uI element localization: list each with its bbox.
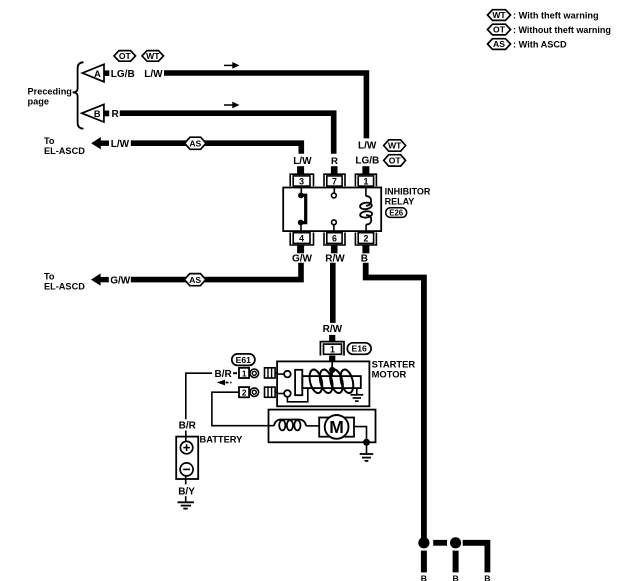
svg-text:L/W: L/W — [111, 139, 130, 150]
svg-text:WT: WT — [492, 10, 506, 20]
node square after triangle A — [104, 70, 109, 76]
pin 3 connector bracket — [290, 174, 313, 186]
svg-text:M: M — [329, 417, 344, 437]
relay contact circle top (pin 7 side) — [333, 188, 335, 194]
solenoid contact circle upper — [284, 371, 291, 378]
battery plus terminal — [180, 441, 192, 453]
svg-text:B/R: B/R — [215, 369, 233, 380]
wire stub below pin 6 — [331, 245, 338, 253]
battery ground symbol — [178, 502, 194, 508]
wire stub below pin 4 — [297, 245, 304, 253]
svg-text:E61: E61 — [236, 355, 252, 365]
relay switch blade — [301, 195, 306, 222]
svg-text:L/W: L/W — [358, 141, 377, 152]
svg-text:To: To — [44, 272, 55, 282]
battery minus terminal — [180, 463, 193, 476]
legend symbol OT — [488, 24, 511, 35]
starter motor name label — [372, 358, 416, 379]
wire below battery — [185, 476, 187, 485]
svg-text:: With theft warning: : With theft warning — [513, 11, 599, 21]
ground symbol below armature box — [360, 442, 374, 461]
svg-text:1: 1 — [330, 345, 335, 355]
svg-text:AS: AS — [493, 39, 505, 49]
wire A (L/W) horizontal then down to pin 1 — [164, 73, 366, 138]
svg-text:R: R — [331, 156, 338, 167]
junction dot B (left) — [418, 537, 429, 548]
legend symbol WT — [488, 10, 511, 21]
relay switch: wire from pin 3 to contact — [300, 188, 302, 194]
left arrow to EL-ASCD (lower) — [91, 273, 109, 285]
hexagon OT near pin 1 — [384, 155, 406, 166]
svg-text:MOTOR: MOTOR — [372, 368, 407, 379]
wire stub B middle — [453, 551, 459, 573]
svg-text:4: 4 — [299, 234, 304, 244]
To EL-ASCD label (upper) — [44, 136, 85, 156]
svg-text:page: page — [28, 97, 49, 107]
svg-text:1: 1 — [363, 176, 368, 186]
connector id oval E26 — [386, 208, 407, 218]
svg-text:B: B — [421, 573, 427, 581]
solenoid contact stub lower — [277, 393, 284, 395]
E61 pin 2 terminal double circle — [250, 388, 259, 397]
pin 2 connector bracket — [355, 233, 376, 246]
svg-text:To: To — [44, 136, 55, 146]
svg-text:: Without theft warning: : Without theft warning — [513, 25, 611, 35]
E61 pin 1 terminal double circle — [250, 369, 259, 378]
inhibitor relay box — [283, 188, 381, 232]
direction arrow near E61 pins — [217, 380, 232, 386]
E61 pin 2 box — [239, 387, 249, 398]
connector triangle B (from preceding page) — [82, 104, 104, 122]
svg-text:E26: E26 — [389, 208, 404, 217]
svg-text:OT: OT — [119, 51, 132, 61]
junction dot on armature box — [363, 439, 370, 446]
pin 7 connector bracket — [324, 174, 345, 186]
relay switch contact dot bottom — [298, 220, 304, 226]
svg-text:Preceding: Preceding — [28, 87, 72, 97]
svg-text:AS: AS — [189, 275, 201, 285]
junction dot on winding top — [329, 367, 335, 373]
svg-text:R: R — [112, 109, 120, 120]
wire from E16 stub to winding junction — [331, 361, 333, 369]
relay switch: wire from contact to pin 4 — [300, 224, 302, 233]
wire stub into E16 pin 1 — [329, 335, 335, 342]
svg-text:B/Y: B/Y — [178, 486, 195, 497]
hexagon AS on G/W wire — [184, 274, 205, 286]
wire B from pin 2 down, right and down page — [366, 263, 424, 540]
svg-text:WT: WT — [388, 141, 402, 151]
junction dot B (middle) — [450, 537, 461, 548]
hexagon AS on L/W wire — [185, 137, 206, 149]
bottom B bus wire to corner — [463, 543, 488, 573]
brace for preceding page — [73, 62, 84, 128]
svg-text:3: 3 — [299, 176, 304, 186]
pin 6 connector bracket — [324, 233, 345, 246]
wire stub into pin 1 — [362, 166, 369, 174]
svg-text:OT: OT — [493, 25, 506, 35]
dash between B/R and pin 1 — [233, 372, 237, 374]
node square after triangle B — [104, 111, 109, 117]
wire stub into pin 3 — [297, 166, 304, 174]
battery ground wire — [185, 496, 187, 502]
hatched terminal block upper (starter pin) — [265, 368, 278, 378]
relay switch contact dot top — [298, 193, 304, 199]
motor M armature — [319, 415, 354, 439]
svg-text:LG/B: LG/B — [355, 156, 379, 167]
wire G/W from pin 4 down and left to EL-ASCD — [131, 263, 301, 280]
pin 1 connector bracket — [355, 174, 376, 186]
svg-text:: With ASCD: : With ASCD — [513, 40, 567, 50]
hexagon WT near pin 1 — [384, 140, 406, 151]
wire L/W to EL-ASCD with corner down to pin 3 — [131, 143, 301, 154]
svg-text:EL-ASCD: EL-ASCD — [44, 281, 85, 291]
solenoid plunger bar — [295, 370, 302, 395]
relay name label — [385, 187, 431, 207]
connector triangle A (from preceding page) — [82, 64, 104, 82]
solenoid contact circle lower — [284, 390, 291, 397]
wire stub below E16 pin into starter box — [329, 356, 335, 362]
svg-text:RELAY: RELAY — [385, 196, 415, 206]
svg-text:2: 2 — [242, 389, 247, 398]
svg-text:1: 1 — [242, 369, 247, 378]
svg-text:L/W: L/W — [144, 69, 163, 80]
svg-text:B/R: B/R — [179, 420, 197, 431]
hatched terminal block lower (starter pin) — [265, 387, 278, 397]
wire from motor to ground junction — [354, 427, 367, 443]
E61 pin 1 box — [239, 368, 249, 379]
svg-text:BATTERY: BATTERY — [200, 435, 244, 445]
svg-text:A: A — [94, 69, 101, 79]
starter motor armature box — [269, 410, 376, 443]
wire B (R) horizontal then down toward pin 7 — [120, 113, 334, 154]
svg-text:INHIBITOR: INHIBITOR — [385, 187, 431, 197]
wire R/W from pin 6 down to starter — [330, 263, 336, 323]
svg-text:L/W: L/W — [293, 156, 312, 167]
relay contact circle bottom (pin 6 side) — [332, 220, 337, 225]
wire stub B left — [421, 551, 427, 573]
svg-text:OT: OT — [389, 156, 402, 166]
svg-text:R/W: R/W — [323, 324, 343, 335]
solenoid core bar — [302, 376, 361, 388]
legend symbol AS — [488, 39, 511, 50]
battery box — [176, 437, 198, 479]
svg-text:LG/B: LG/B — [111, 69, 135, 80]
arrow on wire B — [224, 102, 240, 109]
connector id oval E16 — [347, 343, 371, 355]
svg-text:B: B — [484, 573, 490, 581]
E16 pin 1 connector bracket — [320, 342, 344, 356]
solenoid contact stub upper — [277, 373, 284, 375]
wire from coil to motor — [306, 425, 319, 427]
armature field coil — [274, 420, 306, 431]
wire stub into pin 7 — [331, 166, 338, 174]
wire B/R from E61 pin 1 to battery — [186, 373, 212, 419]
svg-text:EL-ASCD: EL-ASCD — [44, 146, 85, 156]
svg-text:2: 2 — [363, 234, 368, 244]
left arrow to EL-ASCD (upper) — [91, 137, 109, 149]
wire from lower contact to winding (U link) — [287, 389, 307, 402]
relay coil between pin 1 and pin 2 — [360, 188, 373, 233]
connector id oval E61 — [232, 354, 255, 366]
svg-text:B: B — [452, 573, 458, 581]
arrow on wire A — [224, 62, 240, 69]
To EL-ASCD label (lower) — [44, 272, 85, 292]
svg-text:WT: WT — [146, 51, 160, 61]
wire from E61 pin 2 to armature coil — [212, 392, 274, 426]
starter motor solenoid box — [277, 361, 369, 406]
hexagon WT above wire A — [142, 51, 164, 62]
pin 4 connector bracket — [290, 233, 313, 246]
svg-text:AS: AS — [189, 138, 201, 148]
ground symbol inside solenoid box — [350, 388, 363, 401]
svg-text:G/W: G/W — [110, 276, 131, 287]
hexagon OT above wire A — [114, 51, 136, 62]
svg-text:B: B — [94, 109, 101, 119]
svg-text:7: 7 — [332, 176, 337, 186]
wire into battery plus — [185, 431, 187, 442]
preceding page label — [28, 87, 72, 107]
bottom B bus wire dash — [433, 540, 447, 546]
wire stub below pin 2 — [362, 245, 369, 253]
svg-text:6: 6 — [332, 234, 337, 244]
svg-text:E16: E16 — [352, 344, 368, 354]
solenoid winding loops — [307, 368, 355, 394]
